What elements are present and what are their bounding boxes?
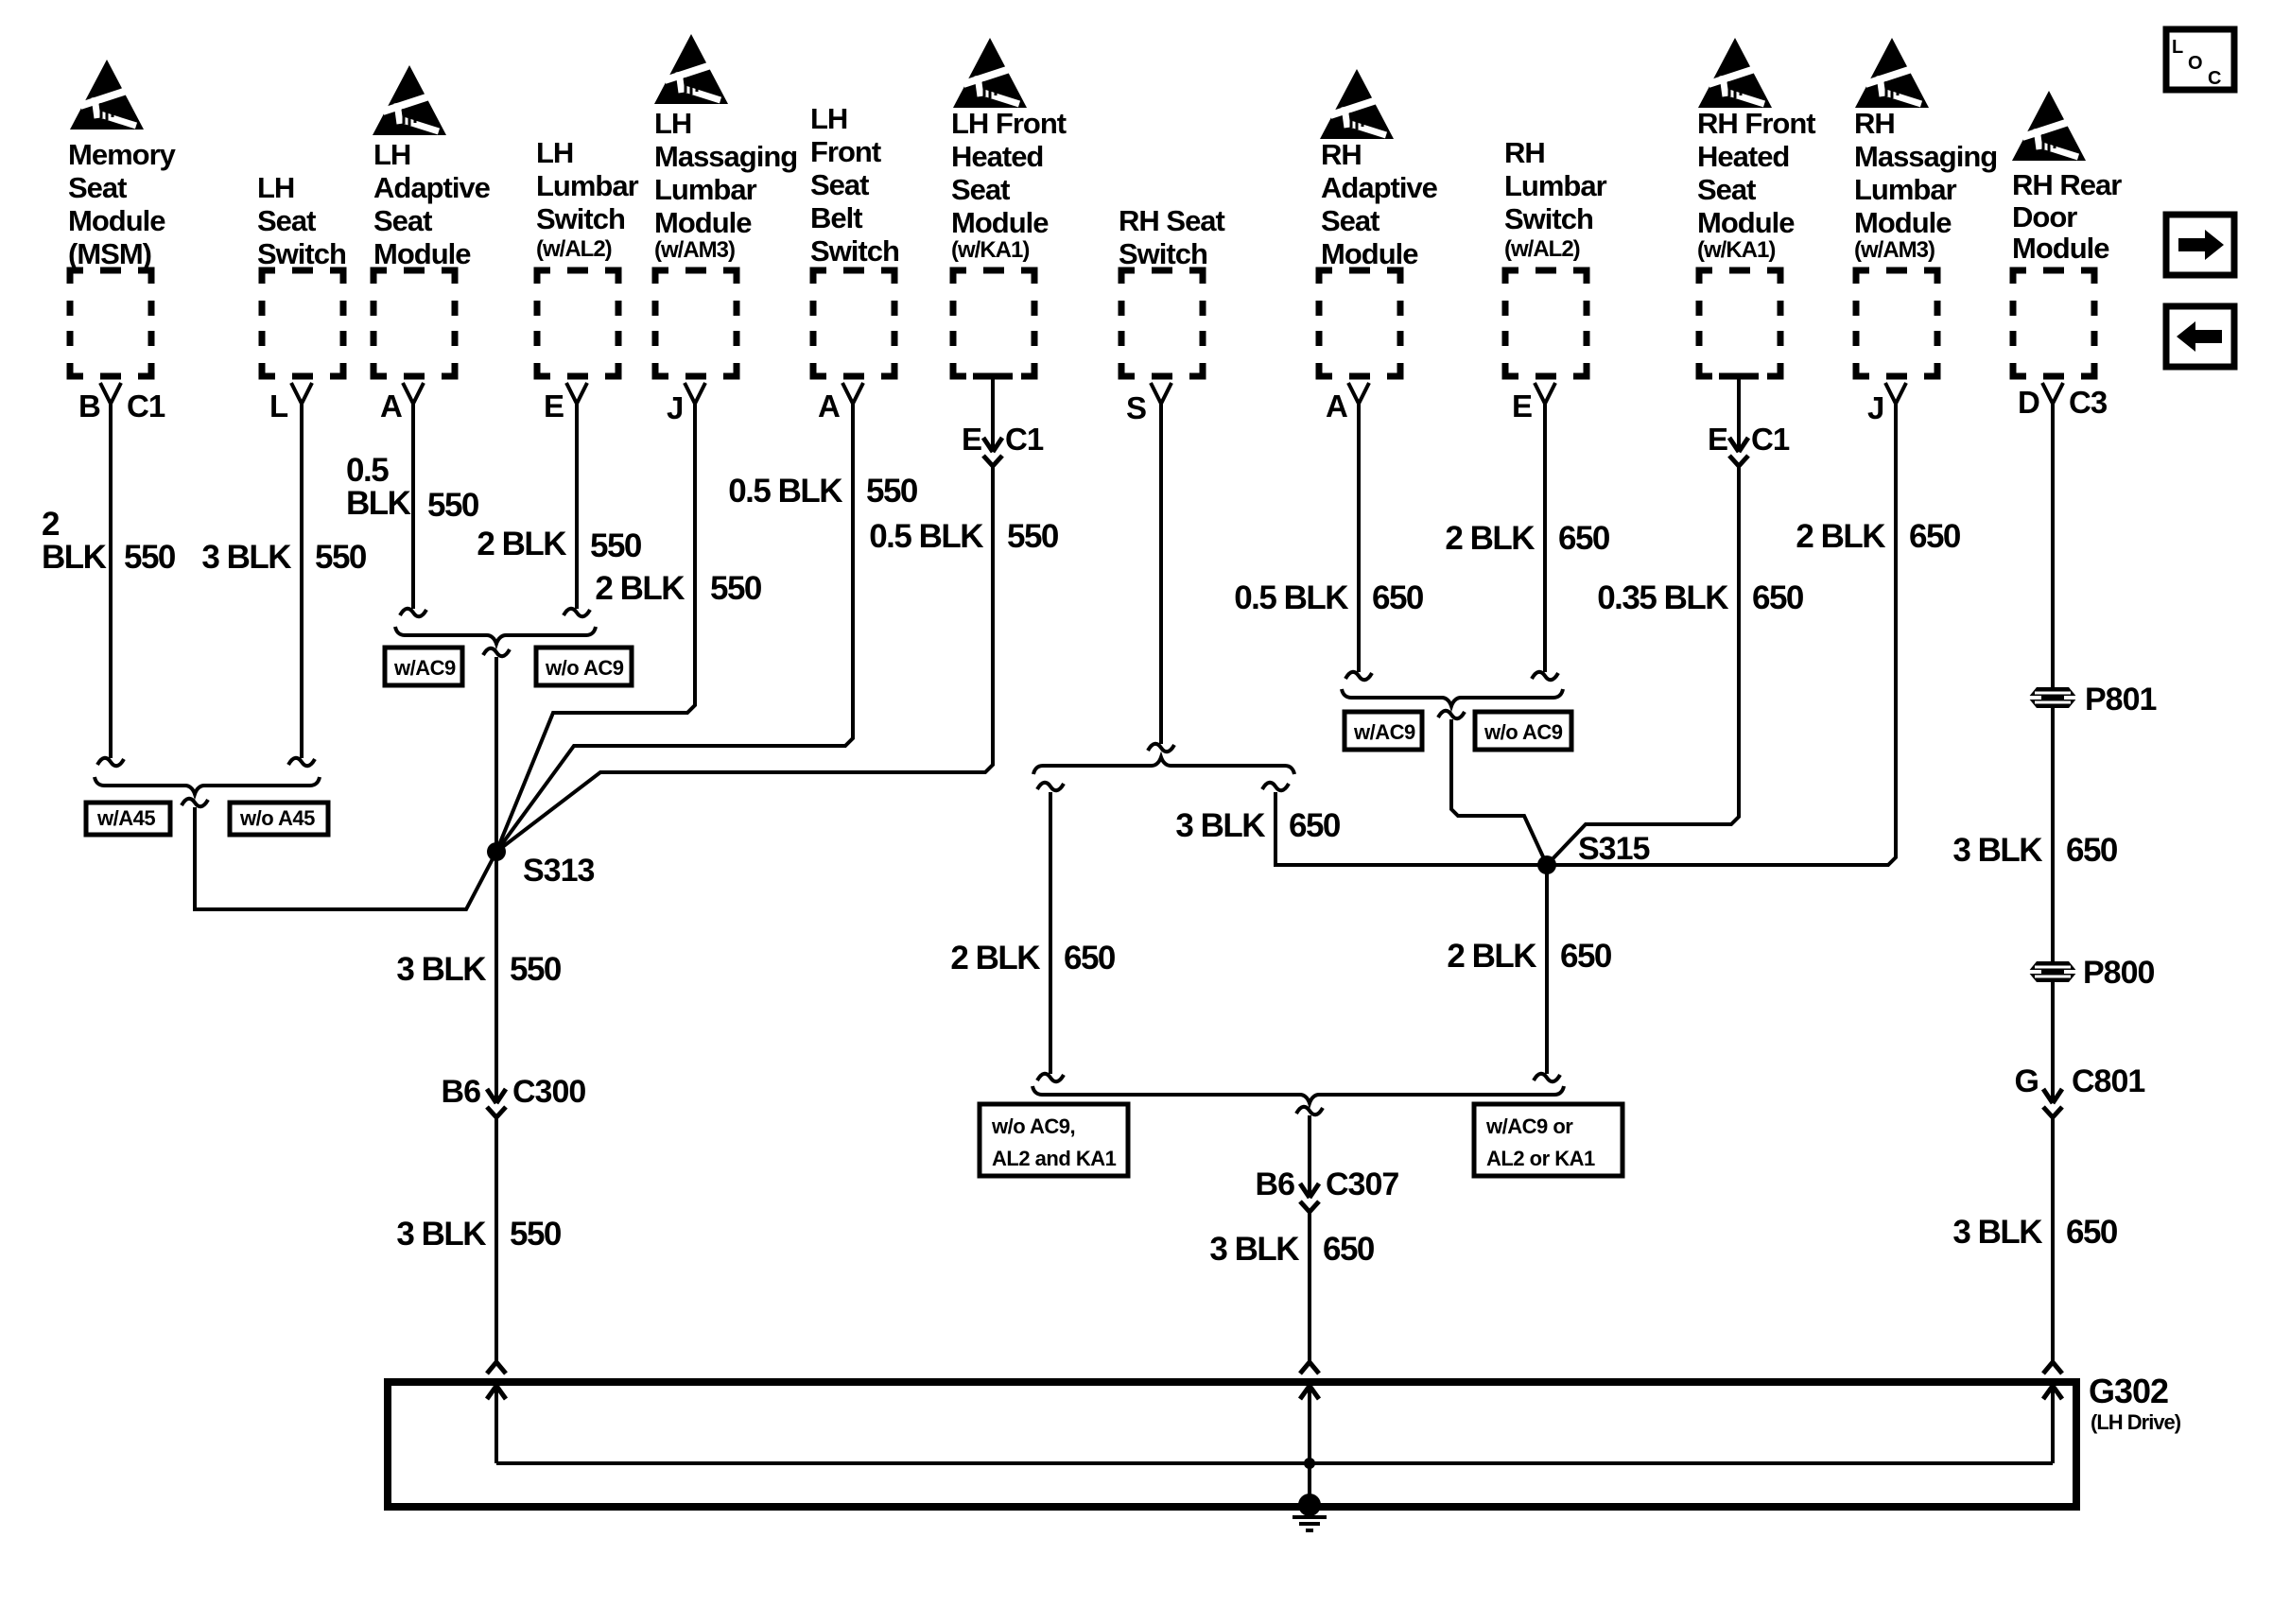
svg-text:550: 550 <box>866 473 918 510</box>
wire label 2 BLK 650 (below S315) <box>1447 938 1612 975</box>
svg-text:w/AC9 or: w/AC9 or <box>1485 1114 1573 1138</box>
svg-text:A: A <box>818 389 840 423</box>
svg-text:2 BLK: 2 BLK <box>595 570 685 607</box>
wire label 2 BLK 550 (LH Lumbar) <box>477 526 642 564</box>
svg-text:Seat: Seat <box>373 204 432 237</box>
svg-text:550: 550 <box>1007 518 1059 555</box>
svg-text:(w/AL2): (w/AL2) <box>1504 236 1580 262</box>
tilde end RH Lumbar wire <box>1532 672 1558 680</box>
ESD symbol: Memory Seat Module <box>70 60 144 130</box>
pin fork J: RH Massaging Lumbar Module <box>1885 383 1906 404</box>
inline connector G C801 <box>2043 1089 2062 1117</box>
ESD symbol: LH Front Heated Seat Module <box>953 38 1027 108</box>
svg-text:Module: Module <box>2012 232 2109 265</box>
svg-text:0.5: 0.5 <box>346 452 389 489</box>
svg-text:3 BLK: 3 BLK <box>1952 832 2042 869</box>
svg-text:A: A <box>1326 389 1347 423</box>
pointer tilde RH AC9 brace <box>1438 711 1465 718</box>
module box: LH Massaging Lumbar Module <box>655 270 737 376</box>
solid bottom tab: RH Front Heated Seat Module <box>1719 373 1759 380</box>
pin fork E: LH Lumbar Switch <box>566 383 587 404</box>
ESD symbol: RH Rear Door Module <box>2012 91 2086 161</box>
svg-text:3 BLK: 3 BLK <box>201 539 291 576</box>
svg-text:L: L <box>269 389 288 423</box>
pin fork S: RH Seat Switch <box>1151 383 1171 404</box>
inline connector B6 C307 <box>1300 1183 1319 1212</box>
wire label 0.5 BLK 550 (LH Seat Belt) <box>728 473 918 510</box>
ground point dot G302 <box>1298 1494 1321 1516</box>
wire label 0.35 BLK 650 (RH Heated) <box>1597 579 1804 616</box>
LOC legend box <box>2166 29 2234 90</box>
svg-text:w/AC9: w/AC9 <box>393 656 456 680</box>
wire label 3 BLK 650 (above ground right) <box>1952 1214 2118 1251</box>
svg-text:3 BLK: 3 BLK <box>1209 1231 1299 1268</box>
tilde end S315 wire <box>1534 1074 1560 1081</box>
inline connector E C1 (LH) <box>983 438 1002 466</box>
svg-text:Heated: Heated <box>951 140 1043 173</box>
svg-text:2 BLK: 2 BLK <box>1445 520 1535 557</box>
svg-text:Module: Module <box>1697 206 1795 239</box>
module label: RH Rear Door Module <box>2012 168 2122 265</box>
svg-text:AL2 or KA1: AL2 or KA1 <box>1486 1147 1595 1170</box>
wire: RH Seat Switch pin S down <box>1159 403 1163 744</box>
wire: RH Heated Seat below C1 to S315 <box>1547 466 1739 865</box>
wire: w/A45 brace riser to S313 <box>195 807 496 909</box>
option box w/AC9 (LH) <box>385 648 462 685</box>
wire: RH Lumbar pin E down <box>1543 403 1547 672</box>
svg-text:C1: C1 <box>1751 422 1790 457</box>
wire label 0.5 BLK 650 (RH Adaptive) <box>1234 579 1424 616</box>
option box w/AC9 (RH) <box>1345 712 1422 750</box>
svg-text:2 BLK: 2 BLK <box>1796 518 1885 555</box>
over-brace on RH Seat Switch wire <box>1033 757 1294 774</box>
svg-text:Seat: Seat <box>257 204 316 237</box>
module label: LH Front Seat Belt Switch <box>810 102 899 268</box>
wire label 3 BLK 650 (RH Rear Door upper) <box>1952 832 2118 869</box>
option box w/A45 <box>86 803 170 835</box>
svg-text:w/AC9: w/AC9 <box>1353 720 1415 744</box>
svg-text:J: J <box>1867 390 1883 425</box>
ESD symbol: LH Massaging Lumbar Module <box>654 34 728 104</box>
svg-text:Massaging: Massaging <box>654 140 797 173</box>
svg-text:Adaptive: Adaptive <box>373 171 491 204</box>
wire: RH seat left leg down <box>1049 792 1052 1074</box>
svg-text:Lumbar: Lumbar <box>1504 169 1607 202</box>
wire label 2 BLK 650 (RH Lumbar) <box>1445 520 1610 557</box>
svg-text:(MSM): (MSM) <box>68 237 151 270</box>
wire: inside bus center down to ground point <box>1308 1386 1311 1505</box>
solid bottom tab: LH Front Heated Seat Module <box>973 373 1013 380</box>
svg-text:AL2 and KA1: AL2 and KA1 <box>992 1147 1117 1170</box>
junction dot on collector line <box>1304 1458 1315 1469</box>
module label: RH Lumbar Switch (w/AL2) <box>1504 136 1607 262</box>
ESD symbol: RH Adaptive Seat Module <box>1320 69 1394 139</box>
svg-text:3 BLK: 3 BLK <box>396 1216 486 1253</box>
ground bus entry (right) <box>2043 1362 2062 1399</box>
svg-text:BLK: BLK <box>42 539 107 576</box>
svg-text:LH: LH <box>373 138 410 171</box>
tilde end S wire <box>1148 744 1174 752</box>
module box: LH Front Seat Belt Switch <box>813 270 894 376</box>
svg-text:Switch: Switch <box>1119 237 1207 270</box>
left-arrow legend box <box>2166 306 2234 367</box>
splice S315 <box>1537 855 1556 874</box>
splice S313 <box>487 842 506 861</box>
svg-text:2: 2 <box>42 506 60 543</box>
svg-text:Door: Door <box>2012 200 2077 233</box>
module box: RH Massaging Lumbar Module <box>1856 270 1937 376</box>
svg-text:E: E <box>1512 389 1532 423</box>
svg-text:650: 650 <box>1323 1231 1375 1268</box>
svg-text:650: 650 <box>2066 1214 2118 1251</box>
svg-text:RH: RH <box>1854 107 1895 140</box>
svg-text:Module: Module <box>68 204 165 237</box>
wire: LH Adaptive pin A down <box>411 403 415 609</box>
svg-text:w/A45: w/A45 <box>96 806 155 830</box>
svg-text:RH: RH <box>1321 138 1362 171</box>
brace under LH Adaptive and LH Lumbar wires <box>395 627 596 644</box>
svg-text:B6: B6 <box>1256 1166 1295 1202</box>
right-arrow legend box <box>2166 215 2234 275</box>
svg-text:Seat: Seat <box>68 171 127 204</box>
wire: C307 down to ground bus <box>1308 1212 1311 1362</box>
connector label E C1 (LH Heated) <box>962 422 1044 457</box>
svg-text:Lumbar: Lumbar <box>654 173 757 206</box>
wire label 2 BLK 650 (RH Massaging) <box>1796 518 1961 555</box>
svg-text:Front: Front <box>810 135 881 168</box>
svg-text:550: 550 <box>510 1216 562 1253</box>
wire label 3 BLK 550 (above ground left) <box>396 1216 562 1253</box>
svg-text:O: O <box>2188 53 2202 74</box>
svg-text:w/o AC9: w/o AC9 <box>1484 720 1563 744</box>
ground bus entry (center) <box>1300 1362 1319 1399</box>
ground bus G302 box <box>388 1382 2076 1507</box>
wire: RH seat right leg to S315 <box>1275 792 1547 865</box>
svg-text:3 BLK: 3 BLK <box>1952 1214 2042 1251</box>
svg-text:P800: P800 <box>2083 955 2154 991</box>
wire: RH brace stem to S315 <box>1451 719 1547 865</box>
connector label G C801 <box>2015 1063 2145 1099</box>
ESD symbol: LH Adaptive Seat Module <box>373 65 446 135</box>
module box: RH Lumbar Switch <box>1505 270 1587 376</box>
module box: Memory Seat Module <box>70 270 151 376</box>
wire: LH brace stem through S313 to C300 <box>495 657 498 1103</box>
svg-text:Module: Module <box>951 206 1049 239</box>
module label: RH Seat Switch <box>1119 204 1225 270</box>
svg-text:Lumbar: Lumbar <box>536 169 639 202</box>
module box: RH Seat Switch <box>1121 270 1203 376</box>
wire: inside bus from left entry down <box>495 1386 498 1463</box>
grommet P800 <box>2028 961 2077 982</box>
tilde end LH Lumbar wire <box>564 609 590 616</box>
svg-text:550: 550 <box>315 539 367 576</box>
module box: RH Front Heated Seat Module <box>1699 270 1780 376</box>
pin fork E: RH Lumbar Switch <box>1535 383 1555 404</box>
svg-text:Switch: Switch <box>810 234 899 268</box>
wire label 0.5 BLK 550 (LH Adaptive) <box>346 452 479 524</box>
wire label 3 BLK 650 (above ground center) <box>1209 1231 1375 1268</box>
wire: RH Adaptive pin A down <box>1357 403 1361 672</box>
wire: RH Heated Seat down to connector C1 <box>1737 376 1741 452</box>
pin fork B: MSM <box>100 383 121 404</box>
svg-text:P801: P801 <box>2085 682 2156 717</box>
pin fork A: RH Adaptive Seat Module <box>1348 383 1369 404</box>
svg-text:650: 650 <box>1558 520 1610 557</box>
svg-text:Switch: Switch <box>1504 202 1593 235</box>
pointer tilde bottom brace <box>1296 1107 1323 1114</box>
module label: LH Lumbar Switch (w/AL2) <box>536 136 639 262</box>
module label: LH Front Heated Seat Module (w/KA1) <box>951 107 1067 263</box>
svg-text:Switch: Switch <box>257 237 346 270</box>
option box w/o AC9, AL2 and KA1 <box>980 1104 1128 1176</box>
tilde end RH Adaptive wire <box>1345 672 1372 680</box>
pin fork L: LH Seat Switch <box>291 383 312 404</box>
tilde end MSM wire <box>97 758 124 766</box>
svg-text:RH Seat: RH Seat <box>1119 204 1225 237</box>
svg-text:C: C <box>2208 68 2221 89</box>
svg-text:650: 650 <box>1372 579 1424 616</box>
svg-text:(w/AL2): (w/AL2) <box>536 236 612 262</box>
svg-text:Module: Module <box>1854 206 1952 239</box>
svg-text:Lumbar: Lumbar <box>1854 173 1957 206</box>
ESD symbol: RH Front Heated Seat Module <box>1698 38 1772 108</box>
svg-text:LH: LH <box>810 102 847 135</box>
wire: MSM pin B down <box>109 403 113 758</box>
module label: LH Seat Switch <box>257 171 346 270</box>
svg-text:650: 650 <box>1560 938 1612 975</box>
ground bus inner collector line <box>496 1461 2053 1465</box>
svg-text:S313: S313 <box>523 853 594 889</box>
svg-text:650: 650 <box>1289 807 1341 844</box>
svg-text:LH: LH <box>536 136 573 169</box>
svg-text:(LH Drive): (LH Drive) <box>2091 1410 2181 1434</box>
svg-text:650: 650 <box>2066 832 2118 869</box>
svg-text:Module: Module <box>654 206 752 239</box>
svg-text:L: L <box>2172 37 2183 58</box>
svg-text:0.5 BLK: 0.5 BLK <box>728 473 842 510</box>
wire: LH Seat Switch pin L down <box>300 403 304 758</box>
pointer tilde LH AC9 brace <box>483 648 510 656</box>
svg-text:0.5 BLK: 0.5 BLK <box>869 518 983 555</box>
svg-text:D: D <box>2018 385 2039 420</box>
svg-text:E: E <box>1708 422 1727 457</box>
option box w/AC9 or AL2 or KA1 <box>1474 1104 1622 1176</box>
module label: RH Massaging Lumbar Module (w/AM3) <box>1854 107 1997 263</box>
svg-text:550: 550 <box>427 487 479 524</box>
svg-text:J: J <box>667 390 683 425</box>
svg-text:RH Rear: RH Rear <box>2012 168 2122 201</box>
svg-text:(w/AM3): (w/AM3) <box>654 237 735 263</box>
svg-text:550: 550 <box>124 539 176 576</box>
svg-text:C1: C1 <box>127 389 165 423</box>
module box: LH Seat Switch <box>262 270 343 376</box>
wire: LH Lumbar pin E down <box>575 403 579 609</box>
connector label B6 C300 <box>442 1074 586 1110</box>
svg-text:C307: C307 <box>1326 1166 1398 1202</box>
svg-text:Seat: Seat <box>1321 204 1379 237</box>
connector label B6 C307 <box>1256 1166 1399 1202</box>
svg-text:A: A <box>380 389 402 423</box>
svg-text:550: 550 <box>510 951 562 988</box>
svg-text:RH Front: RH Front <box>1697 107 1815 140</box>
tilde top of RH seat right leg <box>1262 783 1289 790</box>
svg-text:Seat: Seat <box>810 168 869 201</box>
module box: LH Front Heated Seat Module <box>953 270 1034 376</box>
module label: RH Front Heated Seat Module (w/KA1) <box>1697 107 1815 263</box>
svg-text:2 BLK: 2 BLK <box>477 526 566 562</box>
pin fork D: RH Rear Door Module <box>2042 383 2063 404</box>
svg-text:2 BLK: 2 BLK <box>950 940 1040 976</box>
svg-text:650: 650 <box>1064 940 1116 976</box>
svg-text:E: E <box>544 389 564 423</box>
svg-text:BLK: BLK <box>346 485 411 522</box>
svg-text:Heated: Heated <box>1697 140 1789 173</box>
wire label 2 BLK 550 (MSM) <box>42 506 176 576</box>
svg-text:S315: S315 <box>1578 831 1649 867</box>
wire: RH Rear Door pin D down to P801 <box>2051 403 2055 687</box>
bottom brace collecting two 650 wires <box>1032 1086 1564 1103</box>
svg-text:Seat: Seat <box>951 173 1010 206</box>
wire label 3 BLK 550 (below S313) <box>396 951 562 988</box>
module box: RH Rear Door Module <box>2013 270 2094 376</box>
svg-text:550: 550 <box>590 527 642 564</box>
ESD symbol: RH Massaging Lumbar Module <box>1855 38 1929 108</box>
option box w/o AC9 (LH) <box>536 648 632 685</box>
wire: RH Massaging pin J to S315 <box>1547 403 1896 865</box>
svg-text:C3: C3 <box>2069 385 2108 420</box>
svg-text:Belt: Belt <box>810 201 862 234</box>
svg-text:Adaptive: Adaptive <box>1321 171 1438 204</box>
svg-text:Switch: Switch <box>536 202 625 235</box>
module box: RH Adaptive Seat Module <box>1319 270 1400 376</box>
wire: bottom brace stem to C307 <box>1308 1115 1311 1198</box>
wire label 3 BLK 650 (RH seat right leg) <box>1175 807 1341 844</box>
svg-text:w/o AC9,: w/o AC9, <box>991 1114 1075 1138</box>
wire label 2 BLK 650 (RH seat left leg) <box>950 940 1116 976</box>
tilde end LH Adaptive wire <box>400 609 426 616</box>
option box w/o AC9 (RH) <box>1475 712 1571 750</box>
wire: P800 to connector C801 <box>2051 982 2055 1103</box>
svg-text:(w/AM3): (w/AM3) <box>1854 237 1935 263</box>
pin fork A: LH Adaptive Seat Module <box>403 383 424 404</box>
svg-text:LH: LH <box>654 107 691 140</box>
wire: inside bus from right entry down <box>2051 1386 2055 1463</box>
pointer tilde w/A45 brace <box>182 799 208 806</box>
wire: C801 down to ground bus <box>2051 1117 2055 1362</box>
svg-text:3 BLK: 3 BLK <box>1175 807 1265 844</box>
svg-text:B6: B6 <box>442 1074 481 1110</box>
wire label 0.5 BLK 550 (LH Heated) <box>869 518 1059 555</box>
module label: RH Adaptive Seat Module <box>1321 138 1438 270</box>
svg-text:650: 650 <box>1752 579 1804 616</box>
wire: LH Massaging pin J to S313 <box>496 403 695 852</box>
wire: LH Heated Seat below C1 to S313 <box>496 466 993 852</box>
svg-text:0.35 BLK: 0.35 BLK <box>1597 579 1728 616</box>
wire: S315 down <box>1545 865 1549 1074</box>
module box: LH Adaptive Seat Module <box>373 270 455 376</box>
svg-text:0.5 BLK: 0.5 BLK <box>1234 579 1348 616</box>
svg-text:E: E <box>962 422 981 457</box>
pin fork J: LH Massaging Lumbar Module <box>685 383 705 404</box>
svg-text:Module: Module <box>373 237 471 270</box>
grommet P801 <box>2028 687 2077 708</box>
svg-text:(w/KA1): (w/KA1) <box>1697 237 1775 263</box>
svg-text:Massaging: Massaging <box>1854 140 1997 173</box>
inline connector E C1 (RH) <box>1729 438 1748 466</box>
svg-text:C1: C1 <box>1005 422 1044 457</box>
svg-text:650: 650 <box>1909 518 1961 555</box>
module box: LH Lumbar Switch <box>537 270 618 376</box>
module label: Memory Seat Module (MSM) <box>68 138 177 270</box>
brace under MSM and LH Seat Switch wires <box>95 777 320 794</box>
svg-text:550: 550 <box>710 570 762 607</box>
wire: C300 down to ground bus <box>495 1117 498 1362</box>
ground symbol <box>1293 1517 1327 1530</box>
svg-text:LH Front: LH Front <box>951 107 1067 140</box>
svg-text:S: S <box>1126 390 1146 425</box>
svg-text:Memory: Memory <box>68 138 177 171</box>
svg-text:w/o A45: w/o A45 <box>239 806 315 830</box>
wire label 2 BLK 550 (LH Massaging) <box>595 570 762 607</box>
wire: LH Seat Belt pin A to S313 <box>496 403 853 852</box>
tilde end L wire <box>288 758 315 766</box>
wire: LH Heated Seat down to connector C1 <box>991 376 995 452</box>
svg-text:Seat: Seat <box>1697 173 1756 206</box>
svg-text:LH: LH <box>257 171 294 204</box>
module label: LH Adaptive Seat Module <box>373 138 491 270</box>
inline connector B6 C300 <box>487 1089 506 1117</box>
svg-text:Module: Module <box>1321 237 1418 270</box>
svg-text:w/o AC9: w/o AC9 <box>545 656 624 680</box>
option box w/o A45 <box>230 803 328 835</box>
brace under RH Adaptive and RH Lumbar wires <box>1342 689 1563 706</box>
svg-text:C801: C801 <box>2072 1063 2144 1099</box>
svg-text:C300: C300 <box>512 1074 585 1110</box>
svg-text:G302: G302 <box>2089 1372 2168 1410</box>
svg-text:G: G <box>2015 1063 2039 1099</box>
svg-text:RH: RH <box>1504 136 1545 169</box>
svg-text:2 BLK: 2 BLK <box>1447 938 1536 975</box>
svg-text:3 BLK: 3 BLK <box>396 951 486 988</box>
pin fork A: LH Front Seat Belt Switch <box>842 383 863 404</box>
wire: P801 to P800 <box>2051 708 2055 961</box>
wire label 3 BLK 550 (LH Seat Switch) <box>201 539 367 576</box>
tilde end RH seat left leg <box>1037 1074 1064 1081</box>
svg-text:B: B <box>78 389 100 423</box>
ground bus entry (left) <box>487 1362 506 1399</box>
tilde top of RH seat left leg <box>1037 783 1064 790</box>
connector label E C1 (RH Heated) <box>1708 422 1790 457</box>
module label: LH Massaging Lumbar Module (w/AM3) <box>654 107 797 263</box>
svg-text:(w/KA1): (w/KA1) <box>951 237 1029 263</box>
